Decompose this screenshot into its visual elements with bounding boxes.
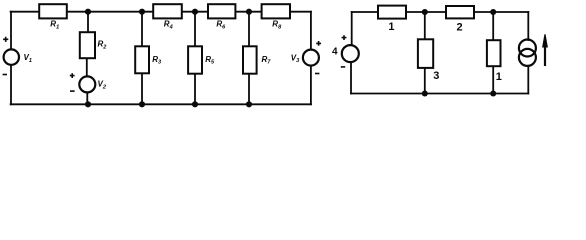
resistor R1 [39, 4, 67, 18]
wire: source 4V bottom lead [350, 62, 352, 94]
resistor 2 (top, right circuit) [446, 6, 474, 18]
wire: current source bottom lead [527, 66, 529, 94]
svg-text:2: 2 [456, 22, 462, 34]
svg-text:R6: R6 [216, 20, 226, 31]
wire: right circuit bottom rail [351, 93, 528, 95]
resistor R7 [243, 46, 257, 73]
svg-text:R8: R8 [272, 20, 282, 31]
resistor 3 (vertical, right circuit) [418, 39, 433, 68]
wire: V2 to bottom rail [86, 92, 88, 104]
svg-text:V1: V1 [24, 53, 32, 64]
plus sign of V3 [316, 41, 321, 46]
wire: node C to R5 [194, 12, 196, 47]
wire: node E to resistor 3 [424, 12, 426, 40]
wire: source 4V top lead [351, 12, 353, 46]
voltage source 4 (right circuit) [342, 45, 359, 62]
resistor R8 [262, 4, 290, 18]
junction node at R7 bottom [246, 101, 252, 107]
minus sign of V3 [315, 73, 319, 75]
svg-text:3: 3 [433, 70, 439, 82]
junction node at resistor 3 bottom [422, 90, 428, 96]
minus sign of V1 [3, 74, 7, 76]
voltage source V2 [79, 76, 95, 92]
junction node at R5 top [192, 9, 198, 15]
current source arrow [542, 34, 548, 66]
wire: R2 to V2 [86, 58, 88, 77]
wire: R5 to bottom rail [194, 74, 196, 105]
plus sign of V1 [3, 37, 8, 42]
junction node at R3 top [139, 9, 145, 15]
junction node at R2 top [85, 9, 91, 15]
junction node at vertical resistor 1 bottom [490, 90, 496, 96]
voltage source V3 [303, 50, 319, 66]
svg-text:1: 1 [388, 21, 394, 33]
svg-text:R1: R1 [50, 20, 59, 31]
minus sign of V2 [70, 90, 75, 92]
svg-text:R3: R3 [152, 55, 162, 66]
wire: node D to R7 [248, 12, 250, 47]
wire: vertical resistor 1 to bottom rail [492, 66, 494, 94]
wire: current source top lead [527, 12, 529, 40]
svg-text:1: 1 [496, 71, 502, 83]
resistor R5 [188, 46, 202, 73]
wire: node B to R3 [141, 12, 143, 47]
resistor R3 [135, 46, 149, 73]
resistor R6 [208, 4, 235, 18]
junction node at R5 bottom [192, 101, 198, 107]
resistor R4 [153, 4, 182, 18]
plus sign of source 4V [342, 35, 347, 40]
junction node at R7 top [246, 9, 252, 15]
voltage source V1 [4, 49, 19, 64]
junction node at V2 bottom [85, 101, 91, 107]
wire: V3 top lead [310, 12, 312, 51]
svg-text:R5: R5 [205, 55, 215, 66]
svg-text:R7: R7 [262, 55, 272, 66]
svg-text:V3: V3 [291, 53, 300, 64]
current source (overlapping circles) [519, 40, 536, 57]
junction node at vertical resistor 1 top [490, 9, 496, 15]
wire: V1 top lead [10, 12, 12, 50]
svg-text:V2: V2 [98, 80, 107, 91]
wire: R3 to bottom rail [141, 73, 143, 104]
wire: V3 bottom lead [310, 65, 312, 104]
junction node at resistor 3 top [422, 9, 428, 15]
wire: right circuit top rail [352, 11, 529, 13]
wire: R7 to bottom rail [248, 74, 250, 105]
minus sign of source 4V [341, 66, 345, 68]
wire: resistor 3 to bottom rail [424, 68, 426, 94]
wire: node F to vertical resistor 1 [492, 12, 494, 41]
svg-text:4: 4 [332, 47, 338, 58]
resistor 1 (top, right circuit) [378, 6, 406, 19]
resistor R2 [80, 32, 95, 58]
plus sign of V2 [70, 73, 75, 78]
svg-text:R2: R2 [98, 40, 108, 51]
svg-text:R4: R4 [164, 20, 174, 31]
wire: left circuit bottom rail [11, 103, 311, 105]
wire: V1 bottom lead [10, 64, 12, 104]
wire: node A to R2 [87, 12, 89, 33]
wire: left circuit top rail [11, 11, 311, 13]
junction node at R3 bottom [139, 101, 145, 107]
resistor 1 (vertical, right circuit) [487, 40, 501, 66]
